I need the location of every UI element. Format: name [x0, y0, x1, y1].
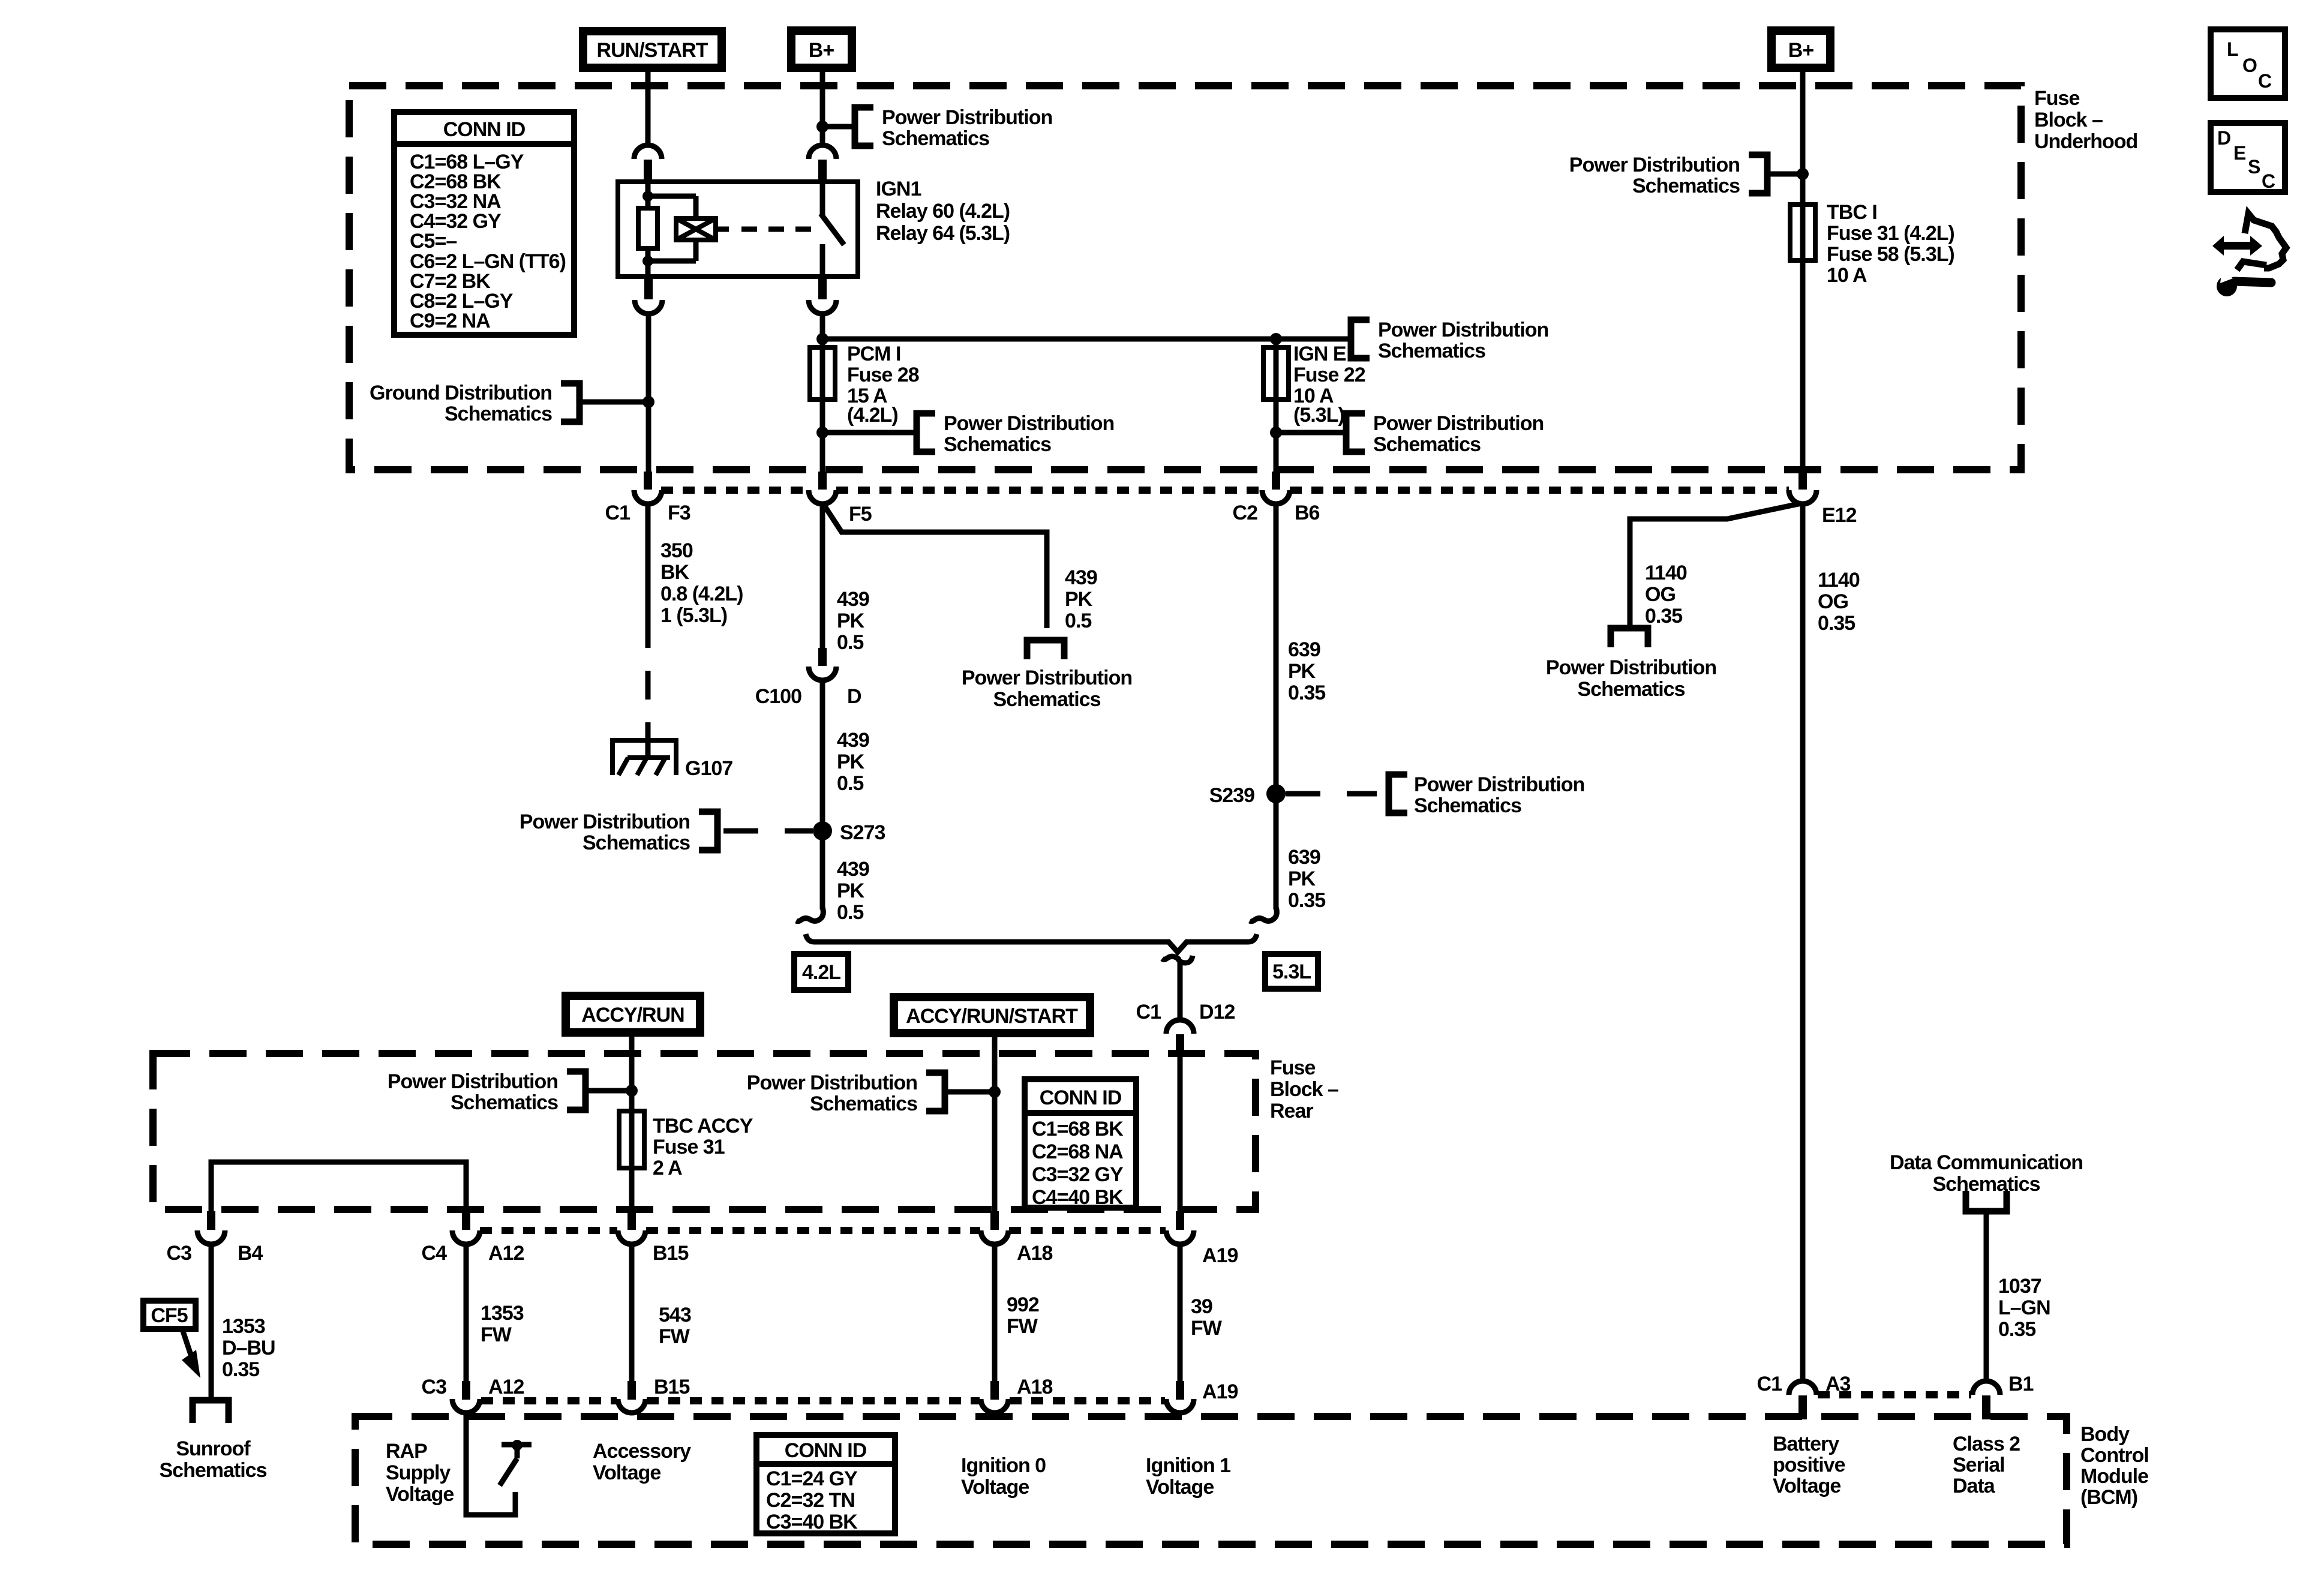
- svg-text:439: 439: [1065, 566, 1097, 589]
- node ACCY/RUN/START box: [894, 997, 1090, 1033]
- svg-text:C: C: [2262, 170, 2275, 192]
- wire 350 BK below C1/F3: [645, 504, 651, 619]
- svg-text:C100: C100: [755, 685, 801, 708]
- svg-text:PK: PK: [837, 610, 865, 632]
- sunroof bracket: [193, 1400, 229, 1423]
- svg-text:PCM I: PCM I: [847, 343, 900, 365]
- dashed link to bracket (S273): [723, 828, 813, 834]
- wire A19 down: [1178, 1244, 1183, 1381]
- node junction ground branch: [642, 396, 654, 408]
- bracket power distribution (PCM bottom): [917, 413, 935, 452]
- svg-text:PK: PK: [1288, 867, 1316, 890]
- svg-text:Voltage: Voltage: [593, 1461, 660, 1484]
- svg-text:5.3L: 5.3L: [1272, 960, 1311, 983]
- svg-text:F5: F5: [849, 503, 872, 526]
- svg-text:C3=40 BK: C3=40 BK: [766, 1511, 858, 1533]
- E12 branch diagonal: [1630, 503, 1801, 628]
- connector row 1 dotted line: [661, 487, 809, 494]
- connector row 2 dotted line: [480, 1227, 617, 1234]
- svg-text:639: 639: [1288, 638, 1320, 661]
- svg-text:39: 39: [1191, 1295, 1212, 1318]
- label 4.2L box: [794, 954, 848, 990]
- connector relay top left: [634, 145, 662, 159]
- svg-text:BK: BK: [660, 561, 690, 584]
- LOC icon box: [2211, 29, 2285, 98]
- svg-text:C1: C1: [605, 502, 630, 524]
- wire D12 down to A19: [1178, 1053, 1183, 1211]
- svg-text:Battery: Battery: [1773, 1433, 1839, 1455]
- svg-text:A12: A12: [488, 1376, 524, 1398]
- svg-text:992: 992: [1007, 1293, 1039, 1316]
- connector C2 B6: [1272, 472, 1280, 490]
- right B+ wire down: [1797, 168, 1809, 180]
- svg-text:Fuse 31 (4.2L): Fuse 31 (4.2L): [1827, 222, 1954, 245]
- svg-text:S273: S273: [840, 821, 885, 844]
- connector A18 (BCM): [990, 1381, 999, 1400]
- bracket power distribution top: [855, 107, 873, 146]
- connector B15 (BCM): [627, 1381, 636, 1400]
- svg-text:C9=2 NA: C9=2 NA: [410, 310, 490, 332]
- engine option brace: [806, 934, 1257, 952]
- svg-text:Power Distribution: Power Distribution: [388, 1070, 558, 1093]
- svg-text:Schematics: Schematics: [810, 1092, 917, 1115]
- svg-text:PK: PK: [837, 879, 865, 902]
- svg-text:Ignition 0: Ignition 0: [961, 1454, 1046, 1477]
- svg-text:RUN/START: RUN/START: [597, 39, 708, 62]
- svg-text:543: 543: [659, 1304, 691, 1326]
- svg-text:Ground Distribution: Ground Distribution: [370, 382, 552, 404]
- svg-text:1037: 1037: [1998, 1275, 2041, 1298]
- svg-text:C5=–: C5=–: [410, 230, 457, 253]
- svg-text:C1=68 BK: C1=68 BK: [1032, 1118, 1124, 1140]
- svg-text:439: 439: [837, 729, 869, 752]
- svg-text:C2=32 TN: C2=32 TN: [766, 1489, 855, 1512]
- RAP switch contact: [502, 1442, 532, 1448]
- connector row 3 dotted line: [481, 1397, 617, 1404]
- fuse IGN E Fuse 22: [1274, 339, 1279, 472]
- svg-text:Control: Control: [2080, 1444, 2149, 1467]
- node ACCY/RUN box: [566, 996, 700, 1032]
- relay actuation dashed link: [716, 227, 729, 232]
- svg-text:G107: G107: [685, 757, 732, 780]
- svg-text:1353: 1353: [222, 1315, 265, 1338]
- fuse block rear dashed border: [153, 1053, 1256, 1209]
- svg-text:TBC ACCY: TBC ACCY: [653, 1115, 753, 1137]
- bracket power distribution (A18): [926, 1073, 945, 1111]
- svg-text:E12: E12: [1822, 504, 1857, 527]
- node junction at fuse bus: [816, 333, 828, 345]
- svg-text:0.5: 0.5: [837, 901, 863, 924]
- relay IGN1 box: [618, 182, 858, 277]
- wire relay left output: [646, 314, 651, 472]
- svg-text:Schematics: Schematics: [1578, 678, 1685, 701]
- svg-text:A19: A19: [1202, 1244, 1238, 1267]
- svg-text:2 A: 2 A: [653, 1157, 682, 1179]
- hook at B6 wire end: [1250, 907, 1277, 921]
- svg-text:0.35: 0.35: [1818, 612, 1855, 635]
- body control module dashed border: [355, 1416, 2067, 1544]
- node junction B+: [816, 121, 828, 133]
- fuse PCM I Fuse 28: [810, 347, 835, 400]
- svg-text:IGN1: IGN1: [876, 178, 921, 200]
- svg-text:1353: 1353: [481, 1302, 524, 1325]
- pointer and wrench icon: [2212, 214, 2286, 296]
- bracket power distribution (IGN E top): [1351, 320, 1370, 358]
- svg-text:Schematics: Schematics: [445, 403, 552, 425]
- wire to D12: [1178, 962, 1183, 1020]
- svg-text:C1: C1: [1136, 1001, 1161, 1023]
- svg-text:Schematics: Schematics: [993, 688, 1101, 711]
- svg-text:Block –: Block –: [1270, 1078, 1338, 1101]
- svg-text:Accessory: Accessory: [593, 1440, 691, 1463]
- svg-text:B15: B15: [653, 1242, 688, 1265]
- svg-text:Supply: Supply: [386, 1461, 451, 1484]
- wire to bracket: [822, 124, 855, 130]
- svg-text:D: D: [847, 685, 861, 708]
- svg-text:4.2L: 4.2L: [802, 961, 840, 984]
- svg-text:B4: B4: [238, 1242, 263, 1265]
- svg-text:TBC I: TBC I: [1827, 201, 1877, 224]
- svg-text:0.8 (4.2L): 0.8 (4.2L): [660, 583, 743, 605]
- svg-text:PK: PK: [1065, 588, 1093, 611]
- DESC icon box: [2211, 123, 2285, 192]
- connector B1 (BCM): [1972, 1381, 2000, 1395]
- svg-text:Underhood: Underhood: [2034, 130, 2137, 153]
- svg-text:Voltage: Voltage: [386, 1483, 454, 1506]
- svg-text:CONN ID: CONN ID: [785, 1439, 867, 1462]
- svg-text:Fuse 31: Fuse 31: [653, 1136, 725, 1158]
- svg-text:Schematics: Schematics: [882, 127, 989, 150]
- svg-text:(BCM): (BCM): [2080, 1486, 2137, 1509]
- svg-text:L: L: [2227, 38, 2238, 60]
- svg-text:Schematics: Schematics: [944, 433, 1051, 456]
- wire below C100: [820, 680, 825, 909]
- svg-text:IGN E: IGN E: [1293, 343, 1346, 365]
- wire below PCM I fuse: [820, 314, 825, 472]
- wire ACCY/RUN down: [626, 1085, 638, 1097]
- connector relay top right: [809, 145, 836, 159]
- svg-text:A3: A3: [1825, 1373, 1851, 1395]
- node RUN/START box: [583, 31, 722, 68]
- svg-text:B+: B+: [809, 39, 834, 62]
- svg-text:Voltage: Voltage: [1773, 1475, 1840, 1497]
- svg-text:A18: A18: [1017, 1376, 1052, 1398]
- wire ACCY/RUN/START down: [992, 1033, 998, 1211]
- svg-text:0.35: 0.35: [1645, 605, 1682, 628]
- svg-text:B6: B6: [1295, 502, 1320, 524]
- svg-text:Relay 60 (4.2L): Relay 60 (4.2L): [876, 200, 1010, 223]
- svg-text:C4=40 BK: C4=40 BK: [1032, 1186, 1124, 1209]
- svg-text:FW: FW: [659, 1325, 690, 1348]
- svg-text:B15: B15: [654, 1376, 689, 1398]
- fuse TBC I: [1790, 205, 1815, 260]
- svg-text:ACCY/RUN/START: ACCY/RUN/START: [906, 1005, 1078, 1028]
- connector relay bottom left: [644, 277, 653, 299]
- wire B+ down: [820, 68, 825, 148]
- bracket to power distribution (branch): [1027, 640, 1064, 659]
- relay coil circuit: [645, 182, 651, 208]
- fuse TBC ACCY Fuse 31: [619, 1111, 644, 1168]
- hook below brace cusp: [1162, 956, 1193, 963]
- CONN ID table rear: [1025, 1079, 1136, 1208]
- bracket to power distribution (1140): [1611, 628, 1648, 647]
- svg-text:C3: C3: [167, 1242, 192, 1265]
- svg-text:Schematics: Schematics: [160, 1459, 267, 1482]
- svg-text:Schematics: Schematics: [1373, 433, 1481, 456]
- bracket power distribution (S273): [699, 812, 717, 850]
- svg-text:Schematics: Schematics: [451, 1091, 558, 1114]
- relay coil X-box: [676, 218, 716, 240]
- svg-text:Data Communication: Data Communication: [1890, 1151, 2083, 1174]
- svg-text:O: O: [2242, 55, 2257, 76]
- svg-text:C: C: [2258, 70, 2272, 92]
- svg-text:0.5: 0.5: [1065, 610, 1091, 632]
- svg-text:Power Distribution: Power Distribution: [944, 412, 1114, 435]
- connector E12: [1798, 472, 1807, 490]
- splice S239: [1266, 784, 1286, 803]
- svg-text:FW: FW: [1007, 1315, 1038, 1338]
- wire below TBC ACCY fuse: [629, 1032, 635, 1211]
- bracket ground distribution: [561, 383, 580, 422]
- svg-text:L–GN: L–GN: [1998, 1296, 2050, 1319]
- svg-text:B1: B1: [2008, 1373, 2034, 1395]
- wire B1 up: [1984, 1211, 1989, 1381]
- node B+ box right: [1771, 31, 1830, 68]
- svg-text:1140: 1140: [1645, 562, 1687, 584]
- svg-text:10 A: 10 A: [1827, 264, 1867, 287]
- svg-text:S: S: [2248, 156, 2260, 178]
- svg-text:1 (5.3L): 1 (5.3L): [660, 604, 727, 627]
- svg-text:Fuse 58 (5.3L): Fuse 58 (5.3L): [1827, 243, 1954, 266]
- bracket power distribution (IGN E bottom): [1346, 413, 1365, 452]
- CONN ID table underhood: [394, 112, 574, 335]
- svg-text:439: 439: [837, 588, 869, 611]
- svg-text:Voltage: Voltage: [1146, 1476, 1214, 1499]
- hook at F5 wire end: [796, 907, 823, 921]
- wire C4 down to A12: [464, 1244, 469, 1381]
- connector A19 (top): [1176, 1211, 1184, 1230]
- jumper B4 to C4: [211, 1162, 466, 1211]
- svg-text:350: 350: [660, 539, 693, 562]
- svg-text:FW: FW: [481, 1323, 512, 1346]
- svg-text:Sunroof: Sunroof: [176, 1437, 251, 1460]
- svg-text:RAP: RAP: [386, 1440, 427, 1463]
- svg-text:0.35: 0.35: [1288, 682, 1325, 704]
- relay switch: [820, 182, 825, 215]
- svg-text:A12: A12: [488, 1242, 524, 1265]
- svg-text:D12: D12: [1199, 1001, 1235, 1023]
- connector C1 F3: [644, 472, 652, 490]
- svg-text:C3: C3: [422, 1376, 447, 1398]
- svg-text:439: 439: [837, 858, 869, 881]
- svg-text:Rear: Rear: [1270, 1100, 1313, 1122]
- svg-text:A18: A18: [1017, 1242, 1052, 1265]
- wire F5 branch diagonal: [824, 505, 1047, 628]
- svg-text:Power Distribution: Power Distribution: [520, 810, 690, 833]
- svg-text:CF5: CF5: [151, 1304, 187, 1327]
- svg-text:Class 2: Class 2: [1953, 1433, 2020, 1455]
- svg-text:D–BU: D–BU: [222, 1337, 275, 1359]
- connector A18 (top): [990, 1211, 999, 1230]
- bracket power distribution (TBC I): [1749, 155, 1767, 193]
- svg-text:A19: A19: [1202, 1380, 1238, 1403]
- svg-text:Schematics: Schematics: [582, 831, 690, 854]
- fuse block underhood dashed border: [349, 86, 2021, 470]
- connector relay bottom right: [818, 277, 827, 299]
- svg-text:C4: C4: [422, 1242, 448, 1265]
- svg-text:C3=32 GY: C3=32 GY: [1032, 1163, 1124, 1186]
- svg-text:0.5: 0.5: [837, 772, 863, 795]
- svg-text:S239: S239: [1209, 784, 1254, 807]
- svg-text:Data: Data: [1953, 1475, 1996, 1497]
- bracket power distribution (S239): [1389, 775, 1407, 813]
- svg-text:Voltage: Voltage: [961, 1476, 1029, 1499]
- svg-text:Power Distribution: Power Distribution: [962, 667, 1132, 689]
- wire bus to IGN E fuse: [822, 337, 1351, 342]
- connector F5: [818, 472, 827, 490]
- CONN ID table BCM: [756, 1435, 895, 1533]
- svg-text:Power Distribution: Power Distribution: [1373, 412, 1544, 435]
- connector B15 (top): [627, 1211, 636, 1230]
- wire A18 down: [992, 1244, 998, 1381]
- svg-text:Power Distribution: Power Distribution: [747, 1071, 917, 1094]
- svg-text:0.35: 0.35: [222, 1358, 259, 1381]
- svg-text:PK: PK: [1288, 660, 1316, 683]
- wire E12 down to BCM: [1800, 504, 1806, 1381]
- svg-text:C1: C1: [1757, 1373, 1782, 1395]
- svg-text:Fuse: Fuse: [1270, 1056, 1315, 1079]
- svg-text:FW: FW: [1191, 1317, 1223, 1340]
- svg-text:Serial: Serial: [1953, 1454, 2005, 1476]
- svg-text:OG: OG: [1818, 590, 1848, 613]
- ground G107: [610, 738, 678, 743]
- node CF5 box: [143, 1301, 196, 1329]
- svg-text:Schematics: Schematics: [1378, 340, 1485, 362]
- svg-text:Ignition 1: Ignition 1: [1146, 1454, 1230, 1477]
- svg-text:(4.2L): (4.2L): [847, 404, 898, 427]
- label 5.3L box: [1265, 954, 1318, 989]
- wire B6 down: [1274, 504, 1279, 909]
- svg-text:0.35: 0.35: [1288, 889, 1325, 912]
- svg-text:positive: positive: [1773, 1454, 1845, 1476]
- svg-text:C2: C2: [1233, 502, 1258, 524]
- svg-text:Power Distribution: Power Distribution: [1414, 773, 1584, 796]
- svg-text:Power Distribution: Power Distribution: [1546, 656, 1716, 679]
- svg-text:Schematics: Schematics: [1414, 794, 1521, 817]
- bracket power distribution (TBC ACCY): [567, 1071, 585, 1110]
- svg-text:639: 639: [1288, 846, 1320, 869]
- connector A19 (BCM): [1176, 1381, 1184, 1400]
- svg-text:Fuse 28: Fuse 28: [847, 364, 919, 386]
- connector C3 B4: [207, 1211, 215, 1230]
- wire B15 down: [629, 1244, 635, 1381]
- connector C3 A12 (BCM): [462, 1381, 470, 1400]
- svg-text:1140: 1140: [1818, 569, 1860, 592]
- connector C1 A3 (BCM): [1789, 1381, 1816, 1395]
- svg-text:Power Distribution: Power Distribution: [882, 106, 1052, 129]
- svg-text:CONN ID: CONN ID: [1040, 1086, 1122, 1109]
- wire relay right output: [820, 314, 825, 350]
- svg-text:Fuse: Fuse: [2034, 87, 2079, 110]
- svg-text:Module: Module: [2080, 1465, 2148, 1488]
- svg-text:B+: B+: [1788, 39, 1814, 62]
- connector C1 D12: [1166, 1020, 1194, 1034]
- connector C100 D: [818, 648, 827, 666]
- svg-text:C1=24 GY: C1=24 GY: [766, 1467, 858, 1490]
- RAP switch wire: [466, 1413, 515, 1515]
- wire B4 down to sunroof: [209, 1244, 214, 1400]
- svg-text:OG: OG: [1645, 583, 1676, 606]
- svg-text:F3: F3: [668, 502, 690, 524]
- svg-text:Body: Body: [2080, 1423, 2130, 1446]
- svg-text:Schematics: Schematics: [1933, 1173, 2040, 1196]
- svg-text:Fuse 22: Fuse 22: [1293, 364, 1365, 386]
- svg-text:Relay 64 (5.3L): Relay 64 (5.3L): [876, 222, 1010, 245]
- data communication bracket: [1966, 1191, 2007, 1211]
- wire RUN/START down to relay: [645, 68, 651, 148]
- wire F5 down: [820, 504, 825, 648]
- svg-text:D: D: [2217, 127, 2230, 149]
- svg-text:(5.3L): (5.3L): [1293, 404, 1344, 427]
- svg-text:Block –: Block –: [2034, 109, 2103, 131]
- dashed link to bracket (S239): [1286, 791, 1377, 797]
- svg-text:PK: PK: [837, 751, 865, 773]
- svg-text:CONN ID: CONN ID: [443, 118, 526, 141]
- node B+ box left: [791, 31, 852, 68]
- svg-text:E: E: [2233, 142, 2246, 164]
- svg-text:ACCY/RUN: ACCY/RUN: [581, 1004, 684, 1026]
- svg-text:0.5: 0.5: [837, 631, 863, 654]
- svg-text:C2=68 NA: C2=68 NA: [1032, 1140, 1123, 1163]
- resistor in relay: [638, 208, 657, 248]
- svg-text:Power Distribution: Power Distribution: [1569, 154, 1740, 176]
- splice S273: [813, 821, 832, 840]
- svg-text:Power Distribution: Power Distribution: [1378, 319, 1548, 341]
- svg-text:Schematics: Schematics: [1632, 175, 1740, 197]
- arrow from CF5: [182, 1328, 191, 1355]
- svg-text:0.35: 0.35: [1998, 1318, 2035, 1341]
- wire below TBC I fuse: [1800, 68, 1806, 472]
- connector C4 A12: [462, 1211, 470, 1230]
